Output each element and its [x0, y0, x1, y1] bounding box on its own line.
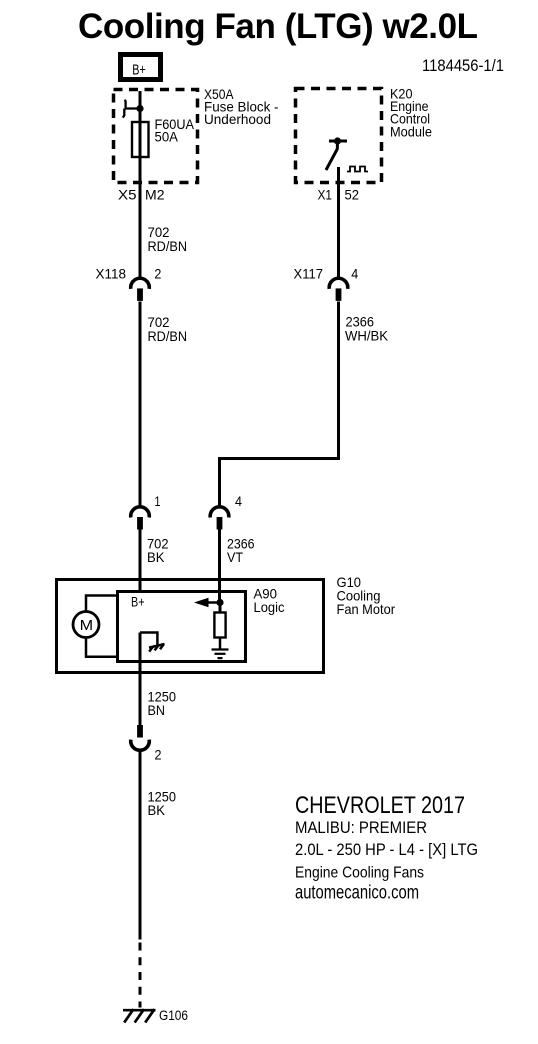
wire label 702 RD/BN upper [148, 224, 188, 254]
wire 1250 BN from A90 ground out of motor box [139, 633, 142, 727]
wire 2366 VT into fan motor logic input [218, 529, 221, 603]
svg-text:50A: 50A [155, 129, 179, 145]
wire 1250 BK to ground [139, 751, 142, 940]
fuse block label X50A Fuse Block - Underhood [204, 86, 279, 127]
resistor R1 pull-down [214, 613, 225, 638]
wire label 2366 VT [227, 536, 255, 566]
ECM label K20 Engine Control Module [390, 86, 432, 140]
svg-text:2: 2 [154, 266, 161, 282]
connector X117 pin 4 [294, 266, 359, 301]
pin label X1 [318, 187, 333, 203]
pin label 52 [345, 187, 360, 203]
svg-text:MALIBU: PREMIER: MALIBU: PREMIER [295, 818, 427, 837]
wire node to pull-down resistor [219, 603, 222, 614]
svg-text:Cooling Fan (LTG) w2.0L: Cooling Fan (LTG) w2.0L [78, 7, 478, 46]
svg-text:RD/BN: RD/BN [148, 328, 188, 344]
svg-text:WH/BK: WH/BK [345, 328, 389, 344]
svg-text:X117: X117 [294, 266, 324, 282]
vehicle info text block [295, 792, 478, 904]
svg-text:BK: BK [148, 802, 166, 818]
wire B+ feed inside fuse block down to connector X118 [139, 91, 142, 279]
chassis ground symbol inside A90 [140, 633, 165, 652]
wire label 1250 BN [148, 689, 177, 719]
dashed wire segment to G106 [139, 943, 142, 1008]
connector X118 pin 2 [96, 266, 162, 301]
svg-text:G106: G106 [159, 1008, 188, 1023]
svg-text:Fan Motor: Fan Motor [337, 601, 396, 617]
svg-text:1184456-1/1: 1184456-1/1 [422, 56, 504, 75]
svg-text:BN: BN [148, 702, 166, 718]
low-side driver switch inside ECM [326, 141, 347, 170]
document number 1184456-1/1 [422, 56, 504, 75]
fuse F60UA 50A [132, 116, 195, 157]
ground G106 [123, 1009, 156, 1022]
svg-text:X1: X1 [318, 187, 333, 203]
wire label 1250 BK [148, 789, 177, 819]
fan motor label G10 Cooling Fan Motor [337, 574, 396, 617]
svg-text:Underhood: Underhood [204, 111, 271, 127]
wire 2366 WH/BK from X117 with bend to motor connector pin 4 [220, 302, 339, 508]
motor M1 [73, 612, 99, 638]
inline connector pin 2 [131, 725, 162, 763]
svg-text:M2: M2 [145, 187, 165, 203]
svg-text:Engine Cooling Fans: Engine Cooling Fans [295, 865, 424, 882]
wire label 702 BK [147, 536, 169, 566]
wire 702 BK into fan motor B+ input [139, 529, 142, 591]
svg-text:1: 1 [155, 493, 161, 509]
wire 702 RD/BN from X118 to motor connector pin 1 [139, 302, 142, 508]
fuse block X50A dashed box [114, 90, 198, 183]
battery feed B+ box [121, 55, 161, 80]
wire label 2366 WH/BK [345, 314, 389, 344]
bus tap clip symbol [123, 100, 140, 118]
engine control module K20 dashed box [296, 89, 382, 183]
svg-text:4: 4 [235, 493, 242, 509]
B+ terminal label inside A90 [131, 593, 145, 609]
ground label G106 [159, 1008, 188, 1023]
svg-text:Module: Module [390, 124, 432, 140]
control input node in A90 [216, 599, 223, 606]
svg-text:BK: BK [147, 549, 165, 565]
title Cooling Fan (LTG) w2.0L [78, 7, 478, 46]
logic module A90 inner box [118, 592, 246, 662]
wire label 702 RD/BN lower [148, 314, 188, 344]
wire resistor to ground [219, 638, 222, 650]
svg-text:X5: X5 [118, 187, 137, 203]
svg-text:automecanico.com: automecanico.com [295, 883, 419, 904]
svg-text:RD/BN: RD/BN [148, 238, 188, 254]
svg-text:B+: B+ [131, 593, 145, 609]
svg-text:2: 2 [155, 747, 162, 763]
motor connector pin 4 [210, 493, 242, 530]
motor connector pin 1 [131, 493, 161, 530]
svg-text:VT: VT [227, 549, 243, 565]
wire motor return to A90 [86, 638, 117, 657]
svg-text:2.0L - 250 HP - L4 - [X] LTG: 2.0L - 250 HP - L4 - [X] LTG [295, 840, 478, 859]
signal arrow into logic [194, 598, 219, 607]
PWM square wave symbol [347, 167, 368, 172]
svg-text:M: M [80, 617, 94, 634]
cooling fan motor G10 outer box [57, 580, 324, 673]
wire motor supply to A90 [86, 596, 117, 612]
svg-text:B+: B+ [132, 62, 146, 79]
svg-text:CHEVROLET 2017: CHEVROLET 2017 [295, 792, 465, 819]
pin label M2 [145, 187, 165, 203]
logic label A90 Logic [254, 586, 285, 616]
svg-text:Logic: Logic [254, 599, 285, 615]
svg-text:4: 4 [351, 266, 358, 282]
switch pivot node [334, 137, 341, 144]
junction node at fuse feed [136, 105, 143, 112]
ground symbol under resistor [212, 650, 229, 659]
svg-text:52: 52 [345, 187, 360, 203]
svg-text:X118: X118 [96, 266, 127, 282]
wire ECM output down to connector X117 [337, 167, 340, 279]
pin label X5 [118, 187, 137, 203]
